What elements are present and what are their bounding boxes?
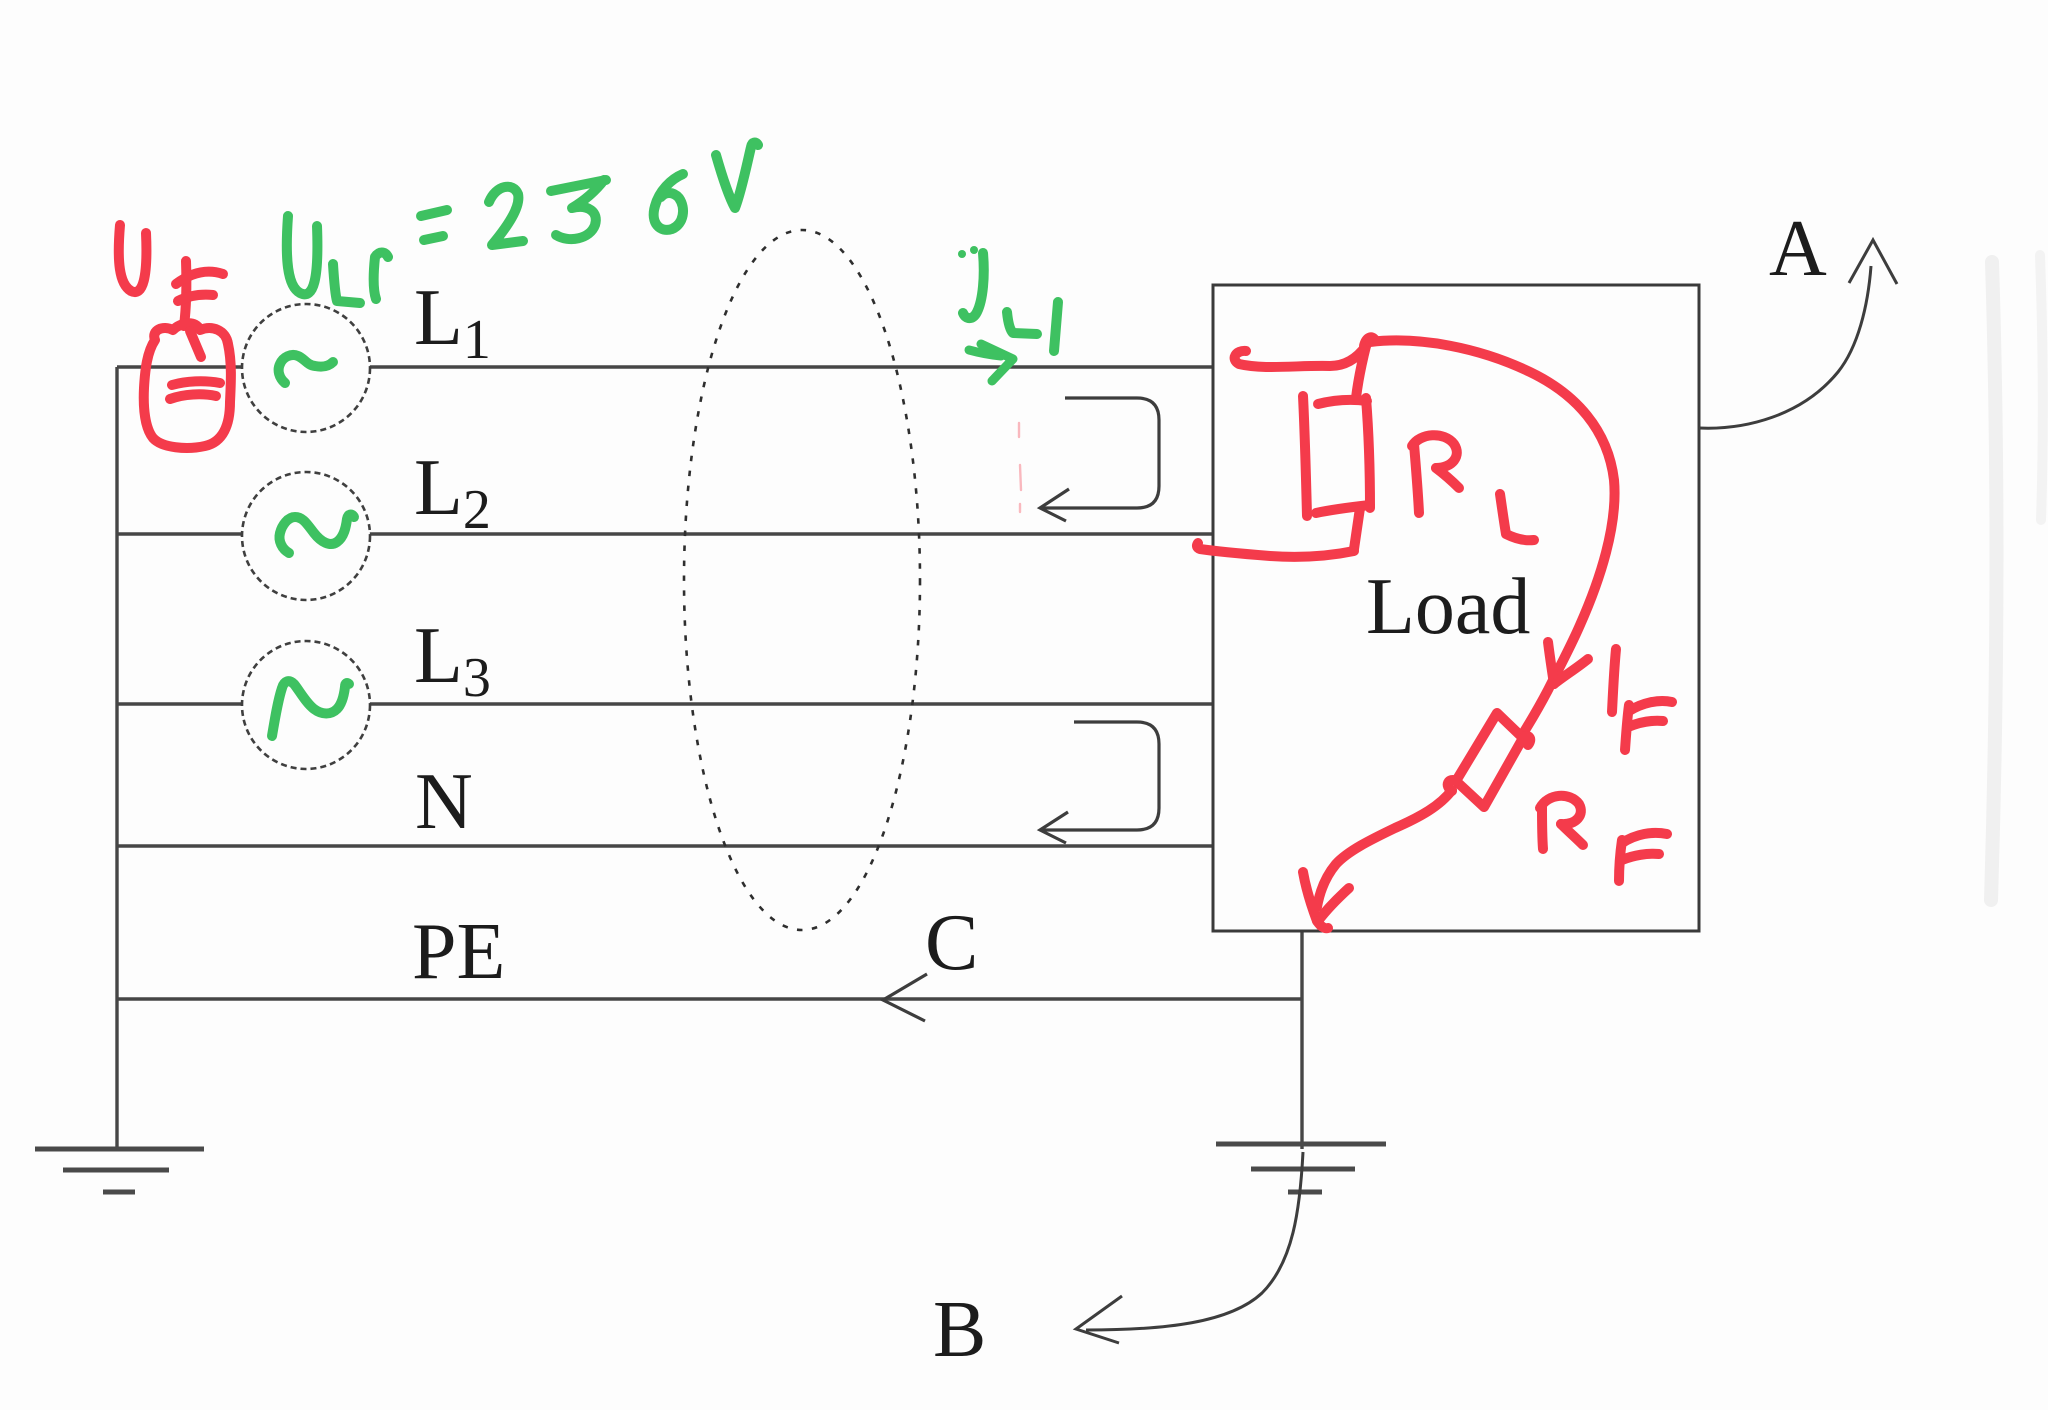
svg-text:B: B — [933, 1286, 986, 1374]
svg-text:PE: PE — [412, 908, 505, 996]
svg-text:N: N — [415, 758, 473, 846]
svg-text:C: C — [925, 899, 978, 987]
svg-text:Load: Load — [1366, 563, 1530, 651]
svg-text:A: A — [1769, 205, 1827, 293]
